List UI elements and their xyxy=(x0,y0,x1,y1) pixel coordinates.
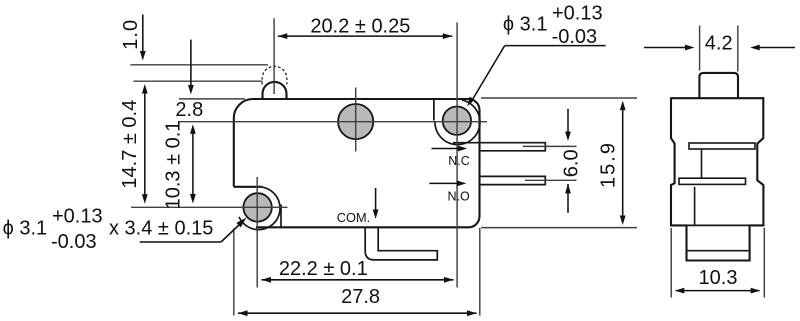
svg-text:6.0: 6.0 xyxy=(561,149,583,177)
svg-text:4.2: 4.2 xyxy=(705,32,733,54)
svg-text:10.3: 10.3 xyxy=(699,267,738,289)
svg-text:20.2 ± 0.25: 20.2 ± 0.25 xyxy=(310,15,410,37)
svg-text:10.3 ± 0.1: 10.3 ± 0.1 xyxy=(162,121,184,210)
svg-text:27.8: 27.8 xyxy=(341,286,380,308)
svg-text:ϕ 3.1: ϕ 3.1 xyxy=(503,14,548,36)
svg-text:N.C: N.C xyxy=(448,154,470,168)
svg-text:-0.03: -0.03 xyxy=(552,26,598,48)
svg-text:22.2 ± 0.1: 22.2 ± 0.1 xyxy=(279,258,368,280)
svg-text:COM.: COM. xyxy=(337,210,370,225)
svg-text:N.O: N.O xyxy=(448,189,471,203)
svg-text:14.7 ± 0.4: 14.7 ± 0.4 xyxy=(119,100,141,189)
svg-text:ϕ 3.1: ϕ 3.1 xyxy=(3,217,48,239)
svg-text:x 3.4 ± 0.15: x 3.4 ± 0.15 xyxy=(109,217,213,239)
svg-text:15.9: 15.9 xyxy=(597,141,619,188)
svg-text:1.0: 1.0 xyxy=(120,19,142,50)
svg-text:+0.13: +0.13 xyxy=(552,2,603,24)
svg-text:+0.13: +0.13 xyxy=(52,206,103,228)
svg-text:2.8: 2.8 xyxy=(175,99,203,121)
svg-text:-0.03: -0.03 xyxy=(51,231,97,253)
